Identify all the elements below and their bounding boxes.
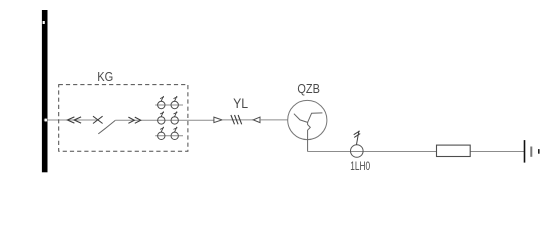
flexible connection YL (3 slashes) (231, 115, 242, 124)
wire: socket to QZB (260, 119, 288, 121)
ground (525, 140, 539, 163)
current transformer CT-3b (171, 127, 178, 140)
svg-text:1LH0: 1LH0 (350, 159, 370, 173)
resistor (grounding resistor) (437, 145, 471, 156)
node: busbar tap (44, 118, 47, 121)
current transformer CT-2b (171, 111, 178, 124)
enclosure KG dashed box (59, 85, 188, 152)
svg-text:YL: YL (233, 96, 248, 111)
current transformer CT-2a (158, 111, 165, 124)
wire: CT row 3 link (155, 135, 183, 137)
switch blade (98, 120, 115, 133)
wire: CT row 1 link (155, 104, 183, 106)
wire: blade to connector (115, 119, 214, 121)
wire: QZB output to CT (308, 151, 524, 153)
wire: busbar to breaker (47, 119, 97, 121)
drawout contact arrow left 1 (67, 117, 74, 123)
current transformer CT-1b (171, 96, 178, 109)
connector plug (right-pointing triangle) (214, 117, 222, 123)
drawout contact arrow right 1 (128, 117, 134, 123)
svg-text:KG: KG (97, 69, 113, 84)
current transformer 1LH0 (351, 131, 364, 158)
wire: plug to socket (222, 119, 253, 121)
drawout contact arrow left 2 (74, 117, 81, 123)
busbar (42, 10, 48, 172)
current transformer CT-3a (158, 127, 165, 140)
connector socket (left-pointing triangle) (253, 117, 260, 123)
autotransformer starter QZB (288, 100, 327, 151)
current transformer CT-1a (158, 96, 165, 109)
drawout contact arrow right 2 (135, 117, 141, 123)
circuit breaker contact X (93, 116, 103, 123)
svg-text:QZB: QZB (297, 81, 320, 96)
